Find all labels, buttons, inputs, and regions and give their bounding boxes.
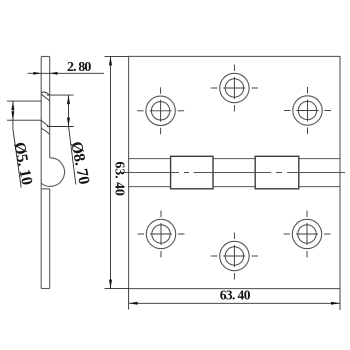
knuckle barrel arc <box>41 158 65 187</box>
knuckle band line upper-left segment <box>129 158 171 160</box>
side view: leaf top cap <box>41 56 50 58</box>
side view: leaf right edge lower part <box>49 189 51 289</box>
side view: leaf left edge <box>40 57 42 289</box>
dim Ø5.10: extension lines <box>7 101 42 187</box>
knuckle band line lower-left segment <box>129 186 171 188</box>
dim 2.80: arrows <box>33 72 41 75</box>
svg-text:63. 40: 63. 40 <box>220 287 251 302</box>
dim Ø5.10: dimension line <box>12 101 14 120</box>
hole H1 top-left <box>146 96 175 125</box>
dim 63.40 vertical: arrows <box>109 56 112 65</box>
dim Ø8.70: leader <box>69 127 76 185</box>
hole H3 top-right <box>293 96 322 125</box>
dim 63.40 horizontal: dimension line <box>129 302 340 304</box>
side view: leaf right edge upper part <box>49 57 51 158</box>
hole H2 top-middle <box>220 73 249 102</box>
dim 63.40 horizontal: arrows <box>129 302 138 305</box>
dim Ø8.70: extension lines <box>47 95 76 184</box>
dim Ø8.70: arrows <box>67 95 70 104</box>
svg-text:2. 80: 2. 80 <box>67 60 91 75</box>
dim Ø8.70: dimension line <box>68 95 70 126</box>
hinge pin centerline <box>123 171 345 173</box>
hole H6 bottom-right <box>292 219 321 248</box>
countersink: upper bore slant <box>41 94 49 100</box>
knuckle band line upper-right segment <box>299 158 340 160</box>
countersink: top rim arc <box>41 92 49 95</box>
knuckle segment K2 <box>255 156 299 189</box>
dim 63.40 vertical: dimension line <box>110 56 112 288</box>
hole H5 bottom-middle <box>220 241 249 270</box>
countersink: lower bore slant <box>41 121 49 127</box>
dim Ø5.10: leader <box>12 120 14 129</box>
dim Ø5.10: arrows <box>11 101 14 110</box>
hole H4 bottom-left <box>146 219 175 248</box>
knuckle barrel bottom line <box>41 188 50 190</box>
knuckle band line upper-middle segment <box>213 158 255 160</box>
dim 63.40 horizontal: extension lines <box>129 289 340 310</box>
knuckle band line lower-middle segment <box>213 186 255 188</box>
countersink: bottom rim arc <box>41 128 49 134</box>
svg-text:63. 40: 63. 40 <box>112 161 127 196</box>
knuckle band line lower-right segment <box>299 186 340 188</box>
dim 2.80: dimension line <box>28 72 104 74</box>
knuckle segment K1 <box>171 156 213 189</box>
dim 63.40 vertical: extension lines <box>105 56 129 288</box>
side view: leaf bottom cap <box>41 288 50 290</box>
front view: hinge plate outline <box>129 56 340 288</box>
